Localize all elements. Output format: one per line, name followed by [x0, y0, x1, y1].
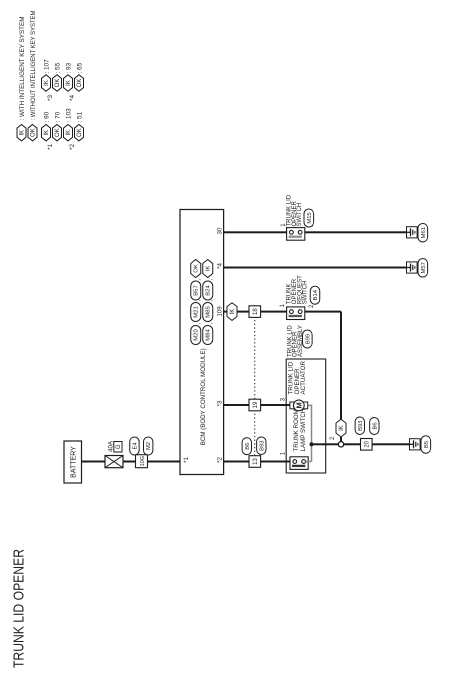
svg-text:1: 1 [281, 451, 287, 455]
svg-text:B99: B99 [305, 334, 311, 344]
svg-text:30: 30 [216, 227, 223, 234]
svg-text:M84: M84 [206, 329, 212, 341]
svg-text:SWITCH: SWITCH [297, 203, 303, 227]
svg-text:TRUNK LID OPENER: TRUNK LID OPENER [11, 549, 28, 668]
svg-text:B24: B24 [206, 285, 212, 296]
svg-text:IK: IK [44, 80, 50, 86]
svg-text:B57: B57 [194, 285, 200, 295]
svg-text:IK: IK [66, 130, 72, 136]
svg-text:19: 19 [253, 401, 259, 408]
svg-text:B6: B6 [245, 443, 251, 450]
svg-text:*2: *2 [216, 457, 223, 463]
svg-text:B14: B14 [313, 289, 319, 300]
svg-text:: 65: : 65 [76, 62, 83, 73]
svg-text:ACTUATOR: ACTUATOR [300, 361, 307, 395]
svg-text:: 90: : 90 [43, 111, 50, 122]
svg-text:: 70: : 70 [54, 111, 61, 122]
svg-text:*3: *3 [47, 95, 54, 101]
svg-text:: 55: : 55 [54, 62, 61, 73]
svg-text:*3: *3 [216, 400, 223, 406]
svg-text:: 51: : 51 [76, 111, 83, 122]
svg-text:M2: M2 [146, 442, 152, 450]
svg-text:18: 18 [253, 308, 259, 315]
svg-text:OK: OK [194, 264, 200, 273]
svg-text:IK: IK [66, 80, 72, 86]
svg-text:M57: M57 [421, 262, 427, 273]
svg-text:13: 13 [253, 458, 259, 465]
svg-text:,: , [196, 323, 202, 325]
svg-text:OK: OK [77, 79, 83, 88]
svg-text:IK: IK [20, 130, 26, 136]
svg-text:IK: IK [230, 309, 236, 315]
svg-text:G: G [116, 444, 122, 449]
svg-text:TRUNK ROOM: TRUNK ROOM [293, 409, 300, 451]
svg-text:IK: IK [44, 130, 50, 136]
svg-text:B6: B6 [372, 422, 378, 429]
svg-text:*1: *1 [183, 457, 190, 463]
svg-text:: 107: : 107 [43, 59, 50, 74]
svg-text:LAMP SWITCH: LAMP SWITCH [300, 409, 307, 452]
svg-text:10G: 10G [140, 456, 146, 467]
svg-text:BATTERY: BATTERY [70, 446, 77, 478]
svg-text:B93: B93 [358, 421, 364, 431]
svg-text:M15: M15 [307, 212, 313, 223]
svg-text:109: 109 [216, 306, 223, 317]
svg-text:OK: OK [31, 128, 37, 137]
svg-text:M21: M21 [194, 306, 200, 317]
svg-text:*4: *4 [216, 263, 223, 269]
svg-text:*1: *1 [47, 144, 54, 150]
svg-text:E4: E4 [132, 442, 138, 450]
svg-text:1: 1 [280, 304, 286, 308]
svg-text:3: 3 [281, 397, 287, 401]
svg-text:*2: *2 [69, 144, 76, 150]
svg-text:,: , [196, 278, 202, 280]
svg-text:40A: 40A [107, 440, 114, 452]
svg-text:: 93: : 93 [65, 62, 72, 73]
svg-text:OK: OK [55, 79, 61, 88]
svg-text:B5: B5 [424, 441, 430, 448]
svg-text:OK: OK [77, 128, 83, 137]
svg-text:: 103: : 103 [65, 108, 72, 123]
svg-text:IK: IK [206, 266, 212, 272]
svg-text:M20: M20 [194, 329, 200, 341]
svg-text:BCM (BODY CONTROL MODULE): BCM (BODY CONTROL MODULE) [200, 348, 207, 445]
svg-text:20: 20 [365, 440, 371, 447]
svg-text:B93: B93 [259, 441, 265, 451]
svg-text:2: 2 [330, 436, 336, 440]
svg-text:,: , [208, 278, 214, 280]
svg-text:: WITH INTELLIGENT KEY SYSTEM: : WITH INTELLIGENT KEY SYSTEM [19, 17, 26, 121]
svg-text:SWITCH: SWITCH [303, 281, 309, 305]
svg-text:IK: IK [339, 425, 345, 431]
svg-text:,: , [208, 323, 214, 325]
svg-text:: WITHOUT INTELLIGENT KEY SYST: : WITHOUT INTELLIGENT KEY SYSTEM [30, 11, 37, 121]
svg-text:M61: M61 [421, 227, 427, 238]
svg-text:M: M [295, 402, 304, 408]
svg-text:*4: *4 [69, 95, 76, 101]
svg-text:M85: M85 [206, 306, 212, 318]
svg-text:,: , [208, 300, 214, 302]
svg-text:,: , [196, 300, 202, 302]
svg-text:OK: OK [55, 128, 61, 137]
